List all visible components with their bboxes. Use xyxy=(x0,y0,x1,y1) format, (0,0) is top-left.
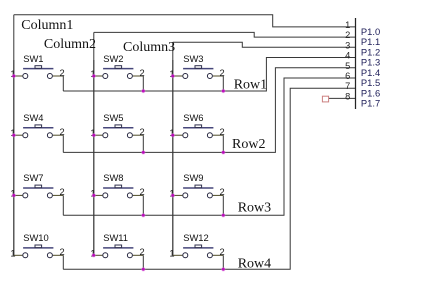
svg-text:SW1: SW1 xyxy=(23,53,43,64)
wire Column3 top run to pin 3 xyxy=(173,42,356,47)
svg-text:1: 1 xyxy=(169,248,174,258)
wire Row2 net to pin 5 xyxy=(63,68,355,153)
junction Column1 / SW1 pin 1 xyxy=(12,74,16,78)
svg-text:2: 2 xyxy=(140,187,145,197)
wire pin 8 stub (unconnected) xyxy=(329,97,356,99)
svg-text:SW11: SW11 xyxy=(103,232,128,243)
svg-text:SW9: SW9 xyxy=(183,172,203,183)
junction Column1 / SW4 pin 1 xyxy=(12,133,16,137)
switch SW9 xyxy=(169,172,224,215)
wire column overdraw 3 xyxy=(172,60,174,255)
wire Row3 net to pin 6 xyxy=(63,78,355,215)
svg-text:P1.7: P1.7 xyxy=(361,98,380,109)
svg-text:1: 1 xyxy=(345,20,350,30)
junction Column2 / SW11 pin 1 xyxy=(91,253,95,257)
svg-text:2: 2 xyxy=(220,247,225,257)
switch SW5 xyxy=(90,112,144,152)
junction Row4 / SW11 pin 2 xyxy=(141,267,145,271)
wire Column3 vertical net xyxy=(172,42,174,255)
junction Row3 / SW8 pin 2 xyxy=(141,213,145,217)
svg-text:7: 7 xyxy=(345,81,350,91)
svg-text:2: 2 xyxy=(60,187,65,197)
svg-text:SW7: SW7 xyxy=(23,172,43,183)
wire Row1 net to pin 4 xyxy=(63,58,355,92)
switch SW3 xyxy=(169,53,224,91)
unconnected wire end marker xyxy=(322,96,328,102)
svg-text:2: 2 xyxy=(220,187,225,197)
junction Column2 / SW5 pin 1 xyxy=(92,133,96,137)
junction Column1 / SW7 pin 1 xyxy=(12,193,16,197)
svg-text:SW12: SW12 xyxy=(183,232,209,243)
switch SW1 xyxy=(10,53,64,91)
wire column overdraw 2 xyxy=(93,60,95,255)
svg-text:Column2: Column2 xyxy=(44,37,96,52)
svg-text:SW6: SW6 xyxy=(183,112,203,123)
junction Column2 / SW2 pin 1 xyxy=(92,74,96,78)
svg-text:SW3: SW3 xyxy=(183,53,203,64)
svg-text:2: 2 xyxy=(140,68,145,78)
wire Column2 top run to pin 2 xyxy=(94,32,356,37)
svg-text:6: 6 xyxy=(345,71,350,81)
switch SW7 xyxy=(10,172,64,215)
switch SW2 xyxy=(90,53,144,91)
junction Column3 / SW9 pin 1 xyxy=(171,193,175,197)
wire column overdraw 1 xyxy=(13,60,15,255)
junction Row1 / SW3 pin 2 xyxy=(221,89,225,93)
junction Row4 / SW12 pin 2 xyxy=(221,267,225,271)
switch SW10 xyxy=(10,232,64,269)
svg-text:2: 2 xyxy=(345,30,350,40)
svg-text:SW4: SW4 xyxy=(23,112,43,123)
svg-text:SW10: SW10 xyxy=(23,232,49,243)
svg-text:3: 3 xyxy=(345,40,350,50)
switch SW12 xyxy=(169,232,224,269)
svg-text:2: 2 xyxy=(60,247,65,257)
svg-text:1: 1 xyxy=(10,248,15,258)
junction Column3 / SW3 pin 1 xyxy=(171,74,175,78)
svg-text:Column3: Column3 xyxy=(123,40,175,55)
svg-text:Row2: Row2 xyxy=(232,137,265,152)
wire Column2 vertical net xyxy=(93,32,95,255)
wire Row4 net to pin 7 xyxy=(63,88,355,269)
junction Column2 / SW8 pin 1 xyxy=(92,193,96,197)
junction Row1 / SW2 pin 2 xyxy=(141,89,145,93)
svg-text:8: 8 xyxy=(345,91,350,101)
svg-text:Column1: Column1 xyxy=(21,18,73,33)
svg-text:2: 2 xyxy=(140,127,145,137)
switch SW8 xyxy=(90,172,144,215)
svg-text:2: 2 xyxy=(60,68,65,78)
junction Column3 / SW6 pin 1 xyxy=(171,133,175,137)
junction Row2 / SW6 pin 2 xyxy=(221,150,225,154)
junction Row3 / SW9 pin 2 xyxy=(221,213,225,217)
svg-text:SW2: SW2 xyxy=(103,53,123,64)
svg-text:Row1: Row1 xyxy=(234,78,267,93)
junction Row2 / SW5 pin 2 xyxy=(141,150,145,154)
svg-text:2: 2 xyxy=(220,127,225,137)
svg-text:Row3: Row3 xyxy=(238,200,271,215)
svg-text:SW5: SW5 xyxy=(103,112,123,123)
svg-text:2: 2 xyxy=(220,68,225,78)
switch SW4 xyxy=(10,112,64,152)
wire Column1 vertical net xyxy=(13,15,15,256)
svg-text:SW8: SW8 xyxy=(103,172,123,183)
switch SW6 xyxy=(169,112,224,152)
svg-text:2: 2 xyxy=(60,127,65,137)
svg-text:5: 5 xyxy=(345,61,350,71)
svg-text:Row4: Row4 xyxy=(238,257,271,272)
wire Column1 top run to pin 1 xyxy=(14,15,356,27)
svg-text:2: 2 xyxy=(140,247,145,257)
switch SW11 xyxy=(90,232,144,269)
connector P1 body line xyxy=(355,18,357,109)
svg-text:4: 4 xyxy=(345,51,350,61)
